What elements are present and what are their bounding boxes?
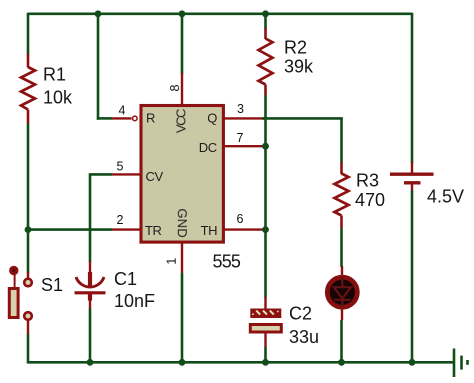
svg-text:6: 6 [237,212,244,226]
pin name DC [199,140,217,155]
wire R3 to LED [340,228,343,267]
svg-text:TR: TR [145,223,162,238]
pin 8 stub [181,73,183,105]
label battery 4.5V [427,187,464,207]
label C2 value [289,304,319,348]
pin 5 stub [112,173,141,175]
pin 2 stub [112,228,141,230]
battery BT1 [390,162,434,190]
pin name TR [145,223,162,238]
svg-text:C2: C2 [289,304,312,324]
wire top rail to R2 [264,14,267,29]
wire C2 to bottom rail [264,347,267,363]
node junction top rail / pin8 branch [179,10,186,17]
pin name VCC [174,109,189,133]
node junction pin7 / R2 wire [262,143,269,150]
pin name GND [175,208,190,238]
svg-text:10nF: 10nF [114,291,155,311]
svg-text:470: 470 [355,190,385,210]
wire left rail lower (S1 to bottom rail) [27,334,30,363]
svg-text:4: 4 [119,104,126,118]
node junction LED / bottom rail [338,359,345,366]
label R2 value [284,38,314,77]
wire pin4 branch vertical [97,14,100,120]
pin number 6 [237,212,244,226]
pin 6 stub [222,228,263,230]
pin number 1 [165,258,179,265]
pin 7 stub [222,145,263,147]
label R3 value [355,171,385,211]
resistor R1 [21,54,35,124]
wire pin8 branch [181,14,184,74]
pin name Q [207,111,217,126]
pin name R [146,111,155,126]
pin 1 stub [181,242,183,273]
pin number 2 [117,213,124,227]
wire LED to bottom rail [340,320,343,363]
svg-text:TH: TH [201,223,218,238]
svg-text:R3: R3 [356,171,379,191]
svg-text:R1: R1 [43,65,66,85]
wire Q output horizontal [262,117,343,120]
svg-text:39k: 39k [284,57,314,77]
wire battery to bottom rail [411,190,414,363]
svg-text:33u: 33u [289,327,319,347]
svg-text:S1: S1 [41,275,63,295]
svg-text:2: 2 [117,213,124,227]
svg-text:555: 555 [213,252,241,272]
wire pin1 to bottom rail [181,273,184,363]
label S1 [41,275,63,295]
svg-text:5: 5 [117,160,124,174]
wire bottom rail GND [27,361,454,364]
svg-text:C1: C1 [114,269,137,289]
svg-text:Q: Q [207,111,217,126]
pin number 3 [237,102,244,116]
resistor R3 [335,162,349,228]
wire right rail (top rail to battery) [411,13,414,163]
op-amp timer IC U1 555 body [141,106,223,243]
label C1 value [114,269,155,311]
wire CV to C1 vertical [89,173,92,262]
node junction top rail / pin4 branch [95,10,102,17]
node junction battery / bottom rail [409,359,416,366]
pin 4 stub with inversion bubble [112,116,137,121]
svg-text:CV: CV [146,169,164,184]
svg-text:7: 7 [237,131,244,145]
pin number 7 [237,131,244,145]
capacitor C1 [75,261,106,308]
wire top rail VCC [28,13,412,16]
svg-text:3: 3 [237,102,244,116]
node junction top rail / R2 branch [262,10,269,17]
wire Q output vertical to R3 [340,118,343,163]
wire C1 to bottom rail [89,308,92,363]
ground symbol [454,349,468,378]
capacitor C2 electrolytic [250,297,281,347]
svg-text:4.5V: 4.5V [427,187,464,207]
resistor R2 [259,28,273,95]
LED D1 [327,266,357,320]
pin number 4 [119,104,126,118]
node junction pin1 / bottom rail [179,359,186,366]
node junction pin6 / R2 wire [262,226,269,233]
wire left rail upper (top rail to R1) [27,13,30,55]
node junction C2 / bottom rail [262,359,269,366]
wire pin4 branch horizontal [97,117,112,120]
pin 3 stub [222,117,264,119]
wire left rail middle (R1 to S1) [27,124,30,274]
label R1 value [43,65,73,108]
wire CV to C1 horizontal [90,173,112,176]
svg-text:R: R [146,111,155,126]
wire R2 to pins 7/6 and C2 [264,95,267,298]
svg-text:1: 1 [165,258,179,265]
svg-text:8: 8 [168,84,182,91]
svg-text:GND: GND [175,208,190,238]
pin number 8 [168,84,182,91]
node junction C1 / bottom rail [87,359,94,366]
pin number 5 [117,160,124,174]
svg-text:10k: 10k [43,88,73,108]
pin name CV [146,169,164,184]
node junction left rail / TR wire [25,226,32,233]
label 555 [213,252,241,272]
wire TR to left rail [28,228,112,231]
svg-text:R2: R2 [284,38,307,58]
svg-text:VCC: VCC [174,109,189,133]
svg-text:DC: DC [199,140,217,155]
switch S1 [9,266,32,334]
pin name TH [201,223,218,238]
